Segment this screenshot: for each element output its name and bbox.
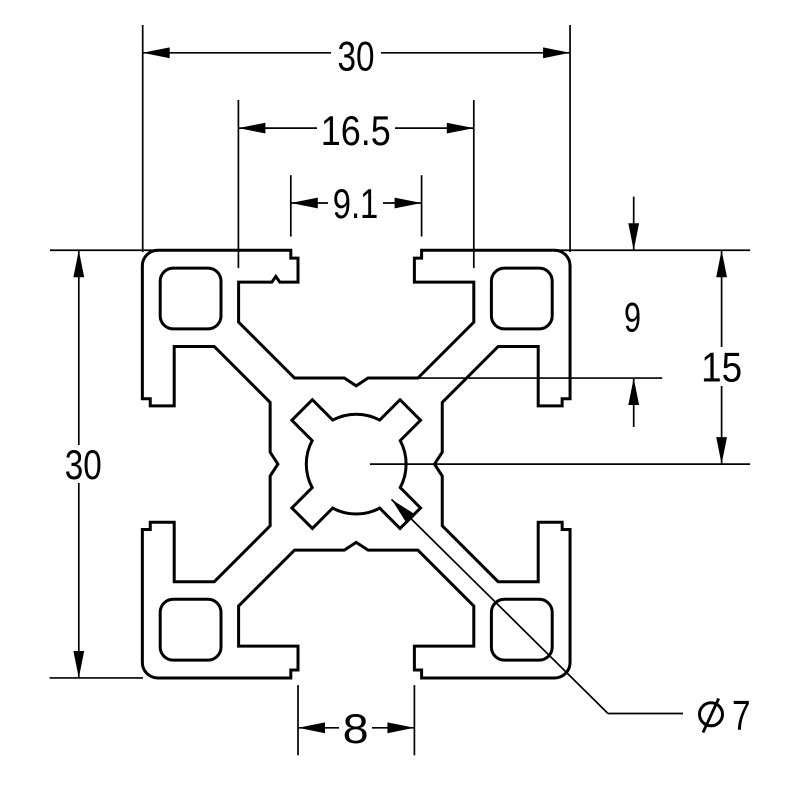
ext line 30-top right: [569, 25, 571, 252]
ext line 30-left top: [50, 249, 181, 251]
ext line 16.5 left: [237, 100, 239, 268]
arrow 30 top right: [543, 47, 570, 58]
arrow 30 left top: [73, 250, 84, 277]
arrow 9.1 right: [395, 198, 422, 209]
ext line 30-left bottom: [50, 677, 143, 679]
arrow dia7 leader: [392, 499, 416, 523]
dim line 9 above: [633, 197, 635, 251]
corner bore hole top-left: [160, 268, 221, 329]
dim line 30 top: [143, 52, 331, 54]
svg-text:15: 15: [701, 344, 742, 391]
svg-text:9: 9: [624, 294, 641, 341]
corner bore hole top-right: [491, 268, 552, 329]
leader line dia7: [392, 499, 609, 713]
svg-text:30: 30: [65, 441, 102, 488]
arrow 8 left: [298, 722, 325, 733]
dim line 8: [298, 727, 339, 729]
ext line 8 left: [297, 685, 299, 755]
svg-text:30: 30: [338, 32, 375, 79]
dim line 16.5: [238, 127, 317, 129]
svg-text:9.1: 9.1: [333, 180, 379, 227]
ext line 9.1 left: [290, 175, 292, 236]
dim line 15: [721, 250, 723, 347]
corner bore hole bottom-right: [491, 599, 552, 660]
extrusion profile outer contour with four T-slots: [142, 250, 570, 678]
ext line centerline 15: [370, 463, 750, 465]
arrow 16.5 left: [238, 123, 265, 134]
arrow 15 top: [716, 250, 727, 277]
ext line 8 right: [413, 685, 415, 755]
arrow 9 bottom (pointing up): [628, 378, 639, 405]
arrow 30 left bottom: [73, 651, 84, 678]
arrow 30 top left: [143, 47, 170, 58]
svg-text:7: 7: [732, 691, 751, 738]
dim line 30 left: [78, 250, 80, 445]
arrow 15 bottom: [716, 437, 727, 464]
center bore dia 7 with cross grip notches: [292, 400, 421, 529]
svg-text:8: 8: [343, 705, 369, 752]
ext line 16.5 right: [473, 100, 475, 268]
ext line 9.1 right: [421, 175, 423, 236]
dim line 9.1: [291, 202, 328, 204]
arrow 8 right: [387, 722, 414, 733]
arrow 9.1 left: [291, 198, 318, 209]
arrow 16.5 right: [447, 123, 474, 134]
diameter symbol of dia7: [700, 703, 723, 726]
ext line slot depth 9: [418, 377, 662, 379]
arrow 9 top (pointing down): [628, 223, 639, 250]
dim line 9 below: [633, 378, 635, 427]
svg-text:16.5: 16.5: [321, 107, 391, 154]
ext line 30-top left: [142, 25, 144, 252]
corner bore hole bottom-left: [160, 599, 221, 660]
ext line top face right: [556, 249, 750, 251]
